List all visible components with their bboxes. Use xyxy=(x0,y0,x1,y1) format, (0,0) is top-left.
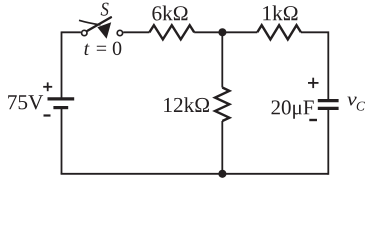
battery plus sign xyxy=(43,82,52,91)
switch S blade xyxy=(88,17,112,31)
capacitor minus sign xyxy=(309,119,317,121)
wire: switch right terminal to 6k resistor xyxy=(123,31,149,33)
wire: left rail upper segment (corner down to battery top plate) xyxy=(61,31,63,98)
wire: capacitor bottom plate down to bottom rail xyxy=(327,110,329,175)
capacitor voltage label vC (v) xyxy=(347,97,356,106)
switch label t = 0 xyxy=(85,42,122,56)
switch S left terminal xyxy=(82,30,87,35)
capacitor value label 20uF xyxy=(272,100,314,119)
resistor R3 12kOhm zigzag (vertical) xyxy=(215,88,229,122)
wire: left rail lower segment (battery bottom plate to bottom rail) xyxy=(61,108,63,174)
wire: top junction node to 1k resistor xyxy=(222,31,257,33)
switch S motion arc xyxy=(79,20,101,25)
wire: 1k resistor to top-right corner and down to capacitor top plate xyxy=(301,32,328,99)
capacitor C1 bottom plate xyxy=(318,107,339,110)
wire: 6k resistor to top junction node xyxy=(194,31,222,33)
resistor R3 value label 12kOhm xyxy=(164,97,209,112)
battery minus sign xyxy=(44,114,51,116)
capacitor voltage label vC (C subscript) xyxy=(357,102,365,111)
switch S right terminal xyxy=(117,30,122,35)
wire: middle branch lower stub (12k resistor to bottom node) xyxy=(221,121,223,174)
resistor R2 1kOhm zigzag xyxy=(257,25,301,39)
battery V1 negative (short) plate xyxy=(53,106,68,109)
switch label S xyxy=(101,3,109,16)
switch S arrowhead xyxy=(97,22,111,39)
wire: top-left horizontal from left rail to switch left terminal xyxy=(62,31,81,33)
resistor R1 6kOhm zigzag xyxy=(149,25,194,39)
resistor R1 value label 6kOhm xyxy=(152,6,187,21)
capacitor C1 top plate xyxy=(318,99,339,102)
node: top junction dot xyxy=(218,28,226,36)
resistor R2 value label 1kOhm xyxy=(263,5,297,20)
wire: middle branch upper stub (top node to 12k resistor) xyxy=(221,32,223,87)
wire: bottom rail xyxy=(61,173,329,175)
battery V1 positive (long) plate xyxy=(48,97,75,100)
capacitor plus sign xyxy=(308,78,319,88)
node: bottom junction dot xyxy=(218,170,226,178)
battery value label 75V xyxy=(8,95,43,109)
